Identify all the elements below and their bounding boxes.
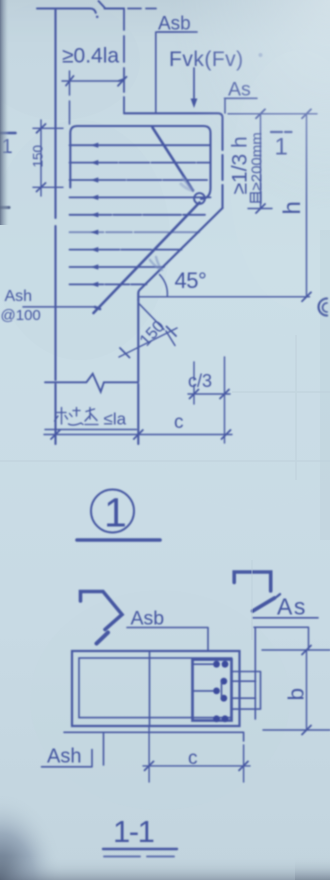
dimension 150 left: arrow ticks: [37, 124, 46, 192]
dimension 150 slope: dim line: [119, 328, 177, 357]
stirrup Ash s8: [70, 266, 165, 268]
label 柱边长 underline: [45, 429, 137, 431]
corbel stirrup box (thick): [193, 660, 232, 721]
wire dashed tail of top cut line: [128, 8, 156, 10]
45 degree arc: [160, 275, 168, 297]
column right face below corbel: [137, 300, 139, 444]
dimension line >=0.4la: [62, 76, 127, 86]
dimension b ticks: [302, 646, 311, 735]
corbel outer face lower part (dashed look): [221, 130, 223, 208]
dimension h arrow ticks: [302, 109, 311, 301]
label As second underline with drop to b dimension: [254, 627, 309, 650]
svg-text:Ash: Ash: [5, 288, 33, 305]
wire column left face: [54, 9, 56, 445]
wire column right face above corbel (dashed): [123, 9, 125, 113]
dimension >=0.4la extension line left: [69, 71, 71, 124]
svg-text:45°: 45°: [175, 268, 207, 293]
paper shading: bottom-left corner: [0, 795, 62, 880]
svg-text:b: b: [284, 688, 309, 701]
wire top cut line of upper column with break symbol: [37, 9, 96, 13]
bent bar symbol Asb (flag): [81, 592, 123, 630]
leader line from Ash label: [23, 306, 95, 308]
svg-text:1-1: 1-1: [113, 814, 154, 849]
svg-text:c: c: [188, 748, 198, 769]
svg-text:c/3: c/3: [188, 371, 212, 391]
rebar dots: [213, 661, 228, 722]
section mark 1 left: line: [0, 132, 16, 135]
svg-text:1: 1: [104, 490, 127, 536]
smudge above arc: [150, 257, 162, 270]
stirrup Ash s6: [70, 231, 200, 233]
extension line top right (corbel top): [228, 113, 317, 115]
paper shading: right crease band: [320, 230, 330, 540]
stirrup Ash s7: [70, 249, 182, 251]
leader drop from As to tie hooks: [254, 627, 256, 719]
paper shading: left edge band: [0, 0, 9, 225]
corbel 45deg sloped soffit: [138, 208, 222, 300]
section divider line: [149, 651, 151, 726]
label Ash underline riser and leader: [42, 732, 244, 767]
label As underline: [253, 617, 318, 619]
extension tick at 1/3h bottom: [248, 208, 272, 210]
dimension line h: [306, 114, 308, 297]
dimension c extension lines (section): [149, 727, 244, 782]
dimension 150 left: dimension line: [40, 120, 42, 196]
dimension 150 left: extension ticks: [33, 128, 63, 187]
smudge near bent bar: [181, 178, 194, 191]
section outer rectangle: [72, 651, 240, 726]
stirrup Ash s2: [70, 162, 211, 164]
label 且>=200mm (rotated) with fake CJK 且: [249, 132, 266, 203]
paper shading: bottom edge: [0, 856, 330, 880]
detail mark circle 1: [91, 490, 134, 533]
c/3 ticks: [190, 390, 230, 399]
svg-text:150: 150: [31, 145, 46, 168]
title 1-1 second underline (broken): [104, 856, 174, 858]
dimension line c (section): [143, 765, 250, 767]
svg-text:≤la: ≤la: [104, 410, 127, 429]
extension line at slope toe going right: [139, 296, 310, 298]
title 1-1 underline: [103, 848, 177, 850]
main bar As hook loop circle: [194, 193, 205, 204]
stray dash left edge: [0, 206, 9, 209]
extension line right face for c/3 and c: [224, 357, 226, 443]
label 柱边长<=la (fake CJK strokes + text): [55, 408, 99, 426]
bar symbol As (bracket): [234, 572, 271, 591]
svg-text:c: c: [174, 412, 184, 433]
break line across column: [45, 374, 138, 392]
bent bar Asb upper diagonal: [153, 128, 194, 191]
dimension 150 slope: extension seg A: [138, 303, 164, 330]
dimension b extension lines: [262, 650, 330, 730]
bent bar Asb lower diagonal: [94, 203, 200, 314]
dim ticks at 55.5 138.3 226: [51, 430, 231, 439]
dimension 150 slope: ticks: [120, 327, 176, 358]
dimension line b: [306, 650, 308, 730]
dimension line 柱边长 and c: [44, 434, 232, 436]
bar symbol As diagonal: [253, 598, 275, 611]
detail mark underline: [77, 538, 160, 542]
stirrup Ash s5: [70, 214, 206, 216]
bent bar symbol Asb tail: [97, 633, 109, 644]
section mark 1 right: line: [271, 131, 292, 133]
tie hooks right of section: [232, 672, 261, 710]
corbel top edge and outer face: [124, 113, 223, 130]
stirrup Ash s9: [70, 283, 147, 285]
label Asb underline + drop: [127, 628, 208, 652]
section stirrup rectangle: [79, 658, 232, 718]
extension line c/3 left (load line): [193, 362, 195, 404]
dimension line 1/3h: [260, 114, 262, 209]
dimension 150 slope: extension seg B: [166, 331, 175, 346]
svg-text:≥0.4la: ≥0.4la: [62, 45, 119, 68]
svg-text:As: As: [277, 594, 307, 620]
label As underline and leader drop: [225, 98, 258, 113]
svg-text:Ash: Ash: [47, 746, 81, 768]
main bar As loop (rounded): [70, 126, 210, 199]
copyright-like mark right edge: [319, 299, 328, 316]
svg-text:Asb: Asb: [131, 608, 165, 630]
svg-text:@100: @100: [1, 307, 41, 324]
stirrup Ash s4: [70, 196, 211, 198]
stirrup arrowheads: [91, 143, 99, 287]
load arrow Fvk: [193, 68, 195, 101]
bar stub lines: [194, 664, 222, 698]
stirrup Ash s3: [70, 179, 211, 181]
stirrup Ash s1: [70, 144, 211, 146]
label Asb underline: [157, 31, 197, 33]
dimension line c/3: [188, 393, 230, 395]
dimension c ticks (section): [145, 761, 249, 770]
dimension 1/3h arrow ticks: [256, 109, 265, 213]
